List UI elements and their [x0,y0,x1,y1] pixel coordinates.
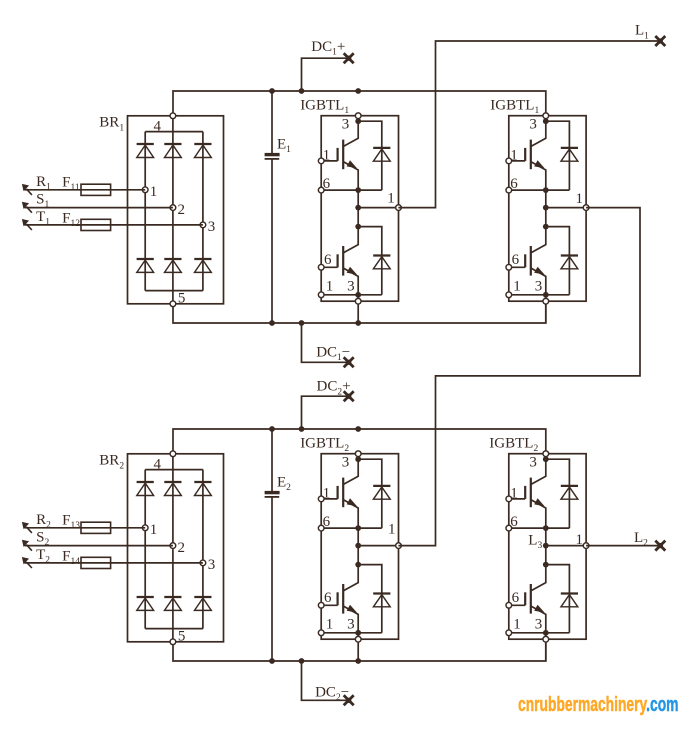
IGBT IGBTL1A lower gate bar [337,254,339,267]
IGBTL1B pin circle bottom [543,298,549,304]
IGBT IGBTL2B lower collector lead [531,565,546,591]
junction dot module A bottom [355,320,361,326]
input terminal arrow S2 [26,545,32,551]
svg-text:3: 3 [347,278,355,294]
IGBTL1A junction dot emitter upper [355,187,361,193]
svg-text:DC1−: DC1− [316,345,350,364]
bridge BR1 node 3 circle [200,222,206,228]
IGBTL2A pin 6 emitter wire upper [321,527,382,529]
wire DC+ bus stage 1 [173,91,546,116]
IGBTL2B bottom emitter wire [509,632,570,634]
IGBT IGBTL1A upper emitter lead with arrow [343,162,358,191]
terminal DC1- X [344,357,354,367]
IGBT IGBTL1B lower body bar [530,246,532,276]
diode BR2 bottom row 1 [137,596,154,598]
IGBTL2B junction dot pin3 [543,456,549,462]
junction dot module A top [355,88,361,94]
IGBTL1A pin circle gate lower [318,264,324,270]
bridge BR1 node 1 circle [142,187,148,193]
IGBTL2B bottom emitter dot [543,630,549,636]
junction dot E2 top [269,426,275,432]
IGBTL2A midpoint dot [355,543,361,549]
svg-text:DC2+: DC2+ [317,379,351,398]
IGBTL2B midpoint dot [543,543,549,549]
IGBTL2A midpoint output wire [358,545,398,547]
IGBTL1B junction dot emitter upper [543,187,549,193]
diode BR1 bottom row 2 [164,258,181,260]
svg-text:6: 6 [324,590,332,606]
bridge BR2 node 4 circle [170,451,176,457]
junction dot E1 bottom [269,320,275,326]
svg-text:4: 4 [154,456,162,472]
svg-text:1: 1 [387,190,395,206]
bridge BR1 right column wire [202,132,204,291]
bridge BR1 bottom rail [145,290,203,292]
bridge BR1 node 4 circle [170,113,176,119]
IGBTL2A midpoint vertical wire [357,528,359,565]
IGBTL2B pin circle midpoint [583,543,589,549]
IGBTL1A midpoint output wire [358,207,398,209]
IGBTL1B pin circle midpoint [583,205,589,211]
svg-text:6: 6 [512,252,520,268]
bridge BR2 node 2 circle [170,543,176,549]
IGBT IGBTL1A lower gate lead [321,266,337,268]
IGBT IGBTL1A lower collector lead [343,227,358,253]
IGBTL2A pin circle gate upper [318,496,324,502]
IGBTL1B bottom emitter dot [543,292,549,298]
freewheel diode IGBTL2B lower [561,592,578,594]
bridge BR2 top rail [145,469,203,471]
IGBTL1A upper collector rail [358,121,382,190]
IGBTL2A pin circle gate lower [318,602,324,608]
IGBTL2A bottom emitter wire [321,632,382,634]
IGBT IGBTL1A lower emitter lead with arrow [343,268,358,295]
junction dot module A top [355,426,361,432]
IGBTL2A bottom emitter dot [355,630,361,636]
capacitor E2 bottom lead [271,497,273,661]
bridge BR2 left column wire [144,470,146,629]
IGBT IGBTL2A upper emitter lead with arrow [343,500,358,528]
IGBTL1A pin circle bottom [355,298,361,304]
terminal DC2- X [344,695,354,705]
IGBT IGBTL2B lower body bar [530,584,532,614]
IGBTL1B lower collector rail [546,227,570,295]
IGBT IGBTL1A upper gate bar [337,148,339,161]
IGBTL1B pin circle gate upper [506,158,512,164]
IGBTL1A bottom emitter wire [321,294,382,296]
IGBTL1A bottom emitter dot [355,292,361,298]
svg-text:IGBTL1: IGBTL1 [490,98,539,117]
freewheel diode IGBTL2A lower [373,592,390,594]
IGBT IGBTL1A upper collector lead [343,121,358,146]
fuse F13 [81,522,111,533]
diode BR1 top row 1 [137,143,154,145]
diode BR2 top row 1 [137,481,154,483]
svg-text:3: 3 [208,557,216,573]
diode BR2 bottom row 2 [164,596,181,598]
svg-text:3: 3 [342,454,350,470]
diode BR1 top row 2 [164,143,181,145]
IGBT IGBTL2A lower emitter lead with arrow [343,606,358,633]
IGBTL2A junction dot pin3 [355,456,361,462]
IGBT IGBTL2A upper gate bar [337,486,339,499]
capacitor E1 bottom lead [271,159,273,323]
bridge BR2 node 3 circle [200,560,206,566]
svg-text:IGBTL1: IGBTL1 [300,98,349,117]
IGBT IGBTL2A lower gate bar [337,592,339,605]
wire L1 output [398,41,660,208]
terminal L1 X [655,36,665,46]
svg-text:3: 3 [208,219,216,235]
bridge BR2 bottom rail [145,628,203,630]
svg-text:IGBTL2: IGBTL2 [300,436,349,455]
IGBT IGBTL1B upper gate lead [509,160,525,162]
IGBT module IGBTL1B outline box [509,116,586,302]
input terminal arrow T1 [26,224,32,230]
svg-text:3: 3 [529,116,537,132]
IGBT IGBTL2A lower collector lead [343,565,358,591]
IGBT IGBTL2A upper collector lead [343,459,358,484]
svg-text:5: 5 [178,628,186,644]
svg-text:1: 1 [388,522,396,538]
IGBTL2B pin circle gate lower [506,602,512,608]
IGBT IGBTL2B upper gate lead [509,498,525,500]
bridge BR2 node 1 circle [142,525,148,531]
svg-text:1: 1 [150,522,158,538]
diode BR1 bottom row 3 [194,258,211,260]
svg-text:2: 2 [178,202,186,218]
bridge BR1 node 5 circle [170,301,176,307]
IGBT module IGBTL2B outline box [509,454,586,640]
capacitor E1 top plate [265,153,280,156]
IGBT IGBTL2A lower gate lead [321,604,337,606]
IGBTL1B pin 6 emitter wire upper [509,189,570,191]
bridge BR1 node 2 circle [170,205,176,211]
input terminal arrow T2 [26,562,32,568]
IGBTL1A pin circle midpoint [396,205,402,211]
IGBTL1B midpoint dot [543,205,549,211]
freewheel diode IGBTL1A upper [373,147,390,149]
IGBTL1A lower collector rail [358,227,382,295]
svg-text:4: 4 [154,118,162,134]
IGBTL1B bottom terminal stub [545,295,547,324]
IGBTL2B lower collector dot [543,562,549,568]
svg-text:1: 1 [513,278,521,294]
IGBTL2B upper collector rail [546,459,570,528]
IGBT IGBTL1A lower body bar [342,246,344,276]
capacitor E1 top lead [271,91,273,153]
IGBT IGBTL2A upper gate lead [321,498,337,500]
capacitor E1 bottom plate [265,158,280,160]
junction dot DC1- tap [299,320,305,326]
junction dot E2 bottom [269,658,275,664]
IGBT IGBTL2B upper body bar [530,478,532,508]
wire L2 output [586,545,660,547]
capacitor E2 bottom plate [265,496,280,498]
IGBTL1B upper collector rail [546,121,570,190]
IGBTL1A pin 6 emitter wire upper [321,189,382,191]
IGBTL1B bottom emitter wire [509,294,570,296]
bridge rectifier BR2 outline box [128,454,224,642]
IGBT IGBTL2B upper emitter lead with arrow [531,500,546,528]
svg-text:3: 3 [535,616,543,632]
diode BR2 top row 3 [194,481,211,483]
bridge BR2 middle column wire [172,454,174,642]
IGBTL2B pin circle top [543,451,549,457]
IGBT IGBTL1B upper emitter lead with arrow [531,162,546,191]
input terminal arrow S1 [26,207,32,213]
svg-text:3: 3 [347,616,355,632]
bridge BR2 node 5 circle [170,639,176,645]
bridge BR1 top rail [145,131,203,133]
IGBTL1B junction dot pin3 [543,118,549,124]
IGBTL2B bottom terminal stub [545,633,547,662]
svg-text:3: 3 [342,116,350,132]
IGBT IGBTL1A upper gate lead [321,160,337,162]
freewheel diode IGBTL2B upper [561,485,578,487]
IGBT IGBTL2B upper gate bar [524,486,526,499]
IGBTL1B pin circle emitter lower [506,292,512,298]
freewheel diode IGBTL1B upper [561,147,578,149]
wire DC- bus stage 2 [173,639,546,661]
wire cascade from IGBTL1B midpoint to IGBTL2A midpoint [398,208,640,546]
svg-text:1: 1 [576,532,584,548]
bridge BR1 left column wire [144,132,146,291]
IGBTL2B pin circle bottom [543,636,549,642]
IGBTL1A bottom terminal stub [357,295,359,324]
capacitor E2 top lead [271,429,273,491]
diode BR1 top row 3 [194,143,211,145]
IGBTL2B pin 6 emitter wire upper [509,527,570,529]
wire DC+ bus stage 2 [173,429,546,454]
input terminal arrow R2 [26,527,32,533]
IGBTL2B pin circle emitter lower [506,630,512,636]
svg-text:IGBTL2: IGBTL2 [489,436,538,455]
terminal DC1- stub wire [302,323,349,362]
terminal DC1+ X [344,53,354,63]
IGBTL2B junction dot emitter upper [543,525,549,531]
IGBTL2A pin circle emitter lower [318,630,324,636]
input line S1 wire [25,207,173,209]
IGBTL2A bottom terminal stub [357,633,359,662]
IGBT IGBTL2A upper body bar [342,478,344,508]
IGBTL1A junction dot pin3 [355,118,361,124]
IGBTL2A pin circle emitter upper [318,525,324,531]
input line T2 wire [25,562,203,564]
svg-text:1: 1 [513,616,521,632]
IGBTL1B pin circle emitter upper [506,187,512,193]
svg-text:1: 1 [576,191,584,207]
IGBT IGBTL2B lower emitter lead with arrow [531,606,546,633]
fuse F11 [81,184,111,195]
svg-text:5: 5 [178,290,186,306]
junction dot DC1+ tap [299,88,305,94]
IGBTL2A junction dot emitter upper [355,525,361,531]
capacitor E2 top plate [265,491,280,494]
junction dot DC2+ tap [299,426,305,432]
bridge BR1 middle column wire [172,116,174,304]
diode BR2 top row 2 [164,481,181,483]
bridge rectifier BR1 outline box [128,116,224,304]
svg-text:6: 6 [324,252,332,268]
svg-text:DC2−: DC2− [315,685,349,704]
IGBT IGBTL1B lower collector lead [531,227,546,253]
input line R2 wire [25,527,146,529]
IGBT IGBTL2B lower gate lead [509,604,525,606]
junction dot DC2- tap [299,658,305,664]
svg-text:2: 2 [178,540,186,556]
IGBTL1A midpoint dot [355,205,361,211]
terminal DC2- stub wire [302,661,349,700]
IGBTL1A pin circle gate upper [318,158,324,164]
IGBTL1A lower collector dot [355,224,361,230]
IGBTL2B midpoint output wire [546,545,586,547]
svg-text:3: 3 [535,278,543,294]
IGBTL1A pin circle top [355,113,361,119]
IGBTL2B pin circle gate upper [506,496,512,502]
freewheel diode IGBTL1A lower [373,254,390,256]
IGBTL2B lower collector rail [546,565,570,633]
input terminal arrow R1 [26,189,32,195]
IGBT IGBTL2B upper collector lead [531,459,546,484]
freewheel diode IGBTL1B lower [561,254,578,256]
svg-text:1: 1 [326,278,334,294]
IGBT IGBTL1B upper collector lead [531,121,546,146]
IGBTL2A pin circle top [355,451,361,457]
fuse F12 [81,219,111,230]
terminal DC2+ stub wire [302,396,349,429]
bridge BR2 right column wire [202,470,204,629]
IGBT IGBTL1B lower gate lead [509,266,525,268]
IGBTL2A lower collector rail [358,565,382,633]
IGBT module IGBTL2A outline box [321,454,398,640]
IGBT IGBTL1B lower gate bar [524,254,526,267]
IGBTL2A lower collector dot [355,562,361,568]
IGBT IGBTL2A lower body bar [342,584,344,614]
svg-text:1: 1 [150,184,158,200]
diode BR1 bottom row 1 [137,258,154,260]
svg-text:6: 6 [512,590,520,606]
IGBT IGBTL1A upper body bar [342,140,344,170]
input line T1 wire [25,224,203,226]
svg-text:DC1+: DC1+ [311,39,345,58]
IGBTL2A upper collector rail [358,459,382,528]
junction dot module A bottom [355,658,361,664]
IGBT IGBTL2B lower gate bar [524,592,526,605]
svg-text:3: 3 [529,454,537,470]
svg-text:1: 1 [326,616,334,632]
terminal L2 X [655,541,665,551]
input line S2 wire [25,545,173,547]
IGBTL2B pin circle emitter upper [506,525,512,531]
IGBTL1B lower collector dot [543,224,549,230]
IGBTL1A pin circle emitter upper [318,187,324,193]
watermark cnrubbermachinery.com [518,693,678,717]
IGBTL2A pin circle midpoint [396,543,402,549]
IGBTL2A pin circle bottom [355,636,361,642]
IGBT IGBTL1B upper body bar [530,140,532,170]
input line R1 wire [25,189,146,191]
fuse F14 [81,557,111,568]
IGBTL2B midpoint vertical wire [545,528,547,565]
terminal DC1+ stub wire [302,58,349,91]
IGBTL1B pin circle top [543,113,549,119]
terminal DC2+ X [344,391,354,401]
IGBTL1B midpoint vertical wire [545,190,547,227]
IGBTL1A pin circle emitter lower [318,292,324,298]
IGBTL1B midpoint output wire [546,207,586,209]
IGBT IGBTL1B upper gate bar [524,148,526,161]
IGBT IGBTL1B lower emitter lead with arrow [531,268,546,295]
IGBTL1B pin circle gate lower [506,264,512,270]
wire DC- bus stage 1 [173,301,546,323]
IGBT module IGBTL1A outline box [321,116,398,302]
diode BR2 bottom row 3 [194,596,211,598]
freewheel diode IGBTL2A upper [373,485,390,487]
junction dot E1 top [269,88,275,94]
IGBTL1A midpoint vertical wire [357,190,359,227]
